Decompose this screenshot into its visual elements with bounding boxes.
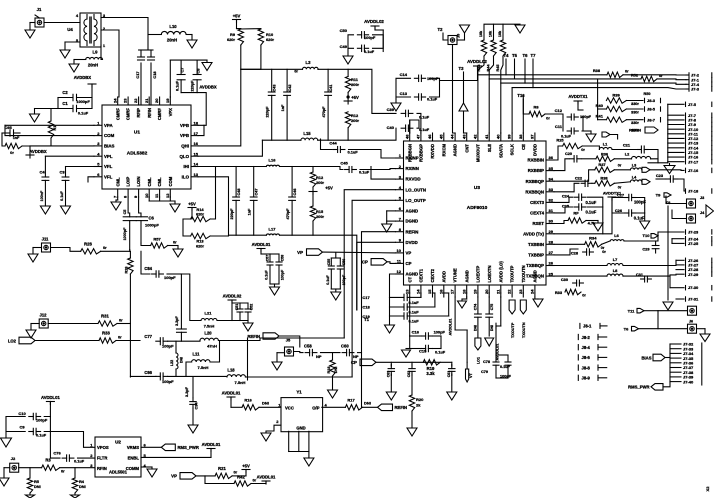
- wire pin39 up: [511, 88, 513, 133]
- resistor R5 vertical: [27, 478, 32, 493]
- wire J4 feed: [672, 210, 687, 219]
- value R6 0r: [546, 116, 550, 121]
- svg-text:32: 32: [549, 198, 554, 203]
- value C42 1nF: [281, 104, 285, 111]
- value 0r mid: [602, 250, 606, 254]
- capacitor C15: [422, 345, 441, 351]
- resistor R38 inline: [607, 72, 623, 77]
- svg-text:DNI: DNI: [34, 484, 41, 489]
- label C17b: [362, 295, 370, 300]
- wire C9 C10 right: [44, 417, 50, 432]
- svg-text:AVDDL01: AVDDL01: [202, 442, 221, 447]
- power AVDDL01 u3: [252, 242, 271, 247]
- wire VP to R21: [196, 475, 215, 477]
- svg-text:13: 13: [194, 172, 199, 177]
- wire R52 to J7-1: [657, 78, 686, 81]
- label L8: [613, 268, 618, 273]
- capacitor C58: [305, 349, 317, 355]
- svg-text:C12: C12: [555, 108, 563, 113]
- label J5: [286, 338, 291, 343]
- wire VTUNE down: [455, 297, 467, 330]
- U3 right pin labels: [523, 155, 554, 279]
- svg-text:18: 18: [461, 289, 466, 294]
- value C18b: [409, 310, 420, 315]
- value C1 0.1uF: [78, 111, 89, 116]
- svg-text:J7-31: J7-31: [688, 296, 699, 301]
- value C34 3.3pF: [185, 386, 189, 397]
- svg-text:CEXT4: CEXT4: [530, 211, 544, 216]
- label C10: [18, 411, 26, 416]
- label R20: [416, 397, 424, 402]
- svg-text:C56: C56: [342, 259, 346, 266]
- label J2: [11, 456, 16, 461]
- resistor R31: [98, 321, 117, 326]
- svg-text:3: 3: [399, 174, 402, 179]
- U3 left pin labels: [397, 153, 426, 276]
- wire C44 feed: [321, 139, 333, 150]
- svg-text:3.3pF: 3.3pF: [175, 315, 179, 325]
- svg-text:AGND: AGND: [406, 272, 419, 277]
- connector J3: [687, 196, 705, 208]
- resistor R9 620r: [238, 29, 243, 45]
- svg-text:VP: VP: [297, 250, 303, 255]
- capacitor C28: [583, 249, 594, 255]
- capacitor C77: [156, 338, 168, 345]
- svg-text:RXVDD: RXVDD: [430, 144, 435, 159]
- oscillator Y1 body: [281, 398, 323, 432]
- svg-text:RMS_PWR: RMS_PWR: [178, 445, 199, 450]
- svg-text:C58: C58: [281, 255, 285, 262]
- U1 pin stubs: [94, 97, 198, 197]
- svg-text:DNI: DNI: [490, 325, 494, 331]
- wire R9 R10 tops: [237, 28, 261, 30]
- capacitor C20 row2: [570, 156, 581, 162]
- resistor R39: [606, 98, 626, 103]
- svg-text:+5V: +5V: [233, 14, 241, 19]
- svg-text:CMRF: CMRF: [115, 108, 120, 121]
- svg-text:DVDD: DVDD: [406, 240, 418, 245]
- label R15: [316, 209, 324, 214]
- value C24: [586, 200, 597, 205]
- svg-text:17: 17: [194, 131, 199, 136]
- svg-text:FLTR: FLTR: [97, 456, 107, 461]
- svg-text:AVDDL01: AVDDL01: [252, 242, 271, 247]
- value R5 DNI: [34, 484, 41, 489]
- U4 pin numbers: [76, 13, 106, 48]
- label R6: [533, 105, 539, 110]
- svg-text:L3: L3: [306, 60, 312, 65]
- label C52: [250, 304, 254, 311]
- value R33 0r: [582, 294, 586, 298]
- power +5V r21: [242, 464, 250, 469]
- svg-text:3: 3: [97, 141, 100, 146]
- svg-text:5: 5: [97, 162, 100, 167]
- capacitor C30: [573, 280, 584, 286]
- svg-text:0.1uF: 0.1uF: [176, 80, 180, 91]
- capacitor C39: [401, 110, 413, 116]
- value R4 DNI: [79, 484, 86, 489]
- wire top line to L3: [241, 68, 303, 70]
- wire AVDD(Tx) pin29: [554, 200, 612, 234]
- ground AGND18: [458, 297, 467, 308]
- svg-text:VRMS: VRMS: [127, 445, 139, 450]
- capacitor C43: [268, 69, 275, 140]
- value C47 1nF: [248, 208, 252, 215]
- svg-text:C58: C58: [304, 344, 312, 349]
- resistor R36: [99, 338, 116, 343]
- ground below R18: [328, 376, 338, 398]
- IC U2 ADL5501 body: [95, 437, 141, 477]
- svg-text:TXBBIP: TXBBIP: [528, 253, 544, 258]
- wire VFL6 left: [88, 177, 94, 182]
- svg-text:6: 6: [399, 206, 402, 211]
- svg-text:DNI: DNI: [262, 401, 269, 406]
- flag TXOUTN down: [520, 300, 526, 338]
- T6b flag: [632, 326, 688, 331]
- label U4: [67, 27, 73, 32]
- value C49 0.1uF: [364, 49, 375, 54]
- svg-text:T9: T9: [656, 193, 661, 198]
- wire R15 bottom: [312, 221, 314, 235]
- inductor L17: [266, 234, 279, 235]
- svg-text:C18: C18: [152, 71, 157, 79]
- capacitor C53 3.3pF: [177, 274, 187, 341]
- wire R14 right: [210, 167, 215, 220]
- wire vertical feed 330r rows: [597, 79, 599, 120]
- label C31: [636, 272, 644, 277]
- label R1: [52, 125, 57, 131]
- svg-text:R6: R6: [533, 105, 539, 110]
- ground below C55 C56: [331, 289, 341, 300]
- svg-text:24: 24: [112, 98, 117, 103]
- wire C44 to RXINP: [349, 150, 396, 159]
- wire pin35 to row2: [554, 159, 570, 171]
- label R50: [644, 92, 651, 96]
- svg-text:J8-7: J8-7: [647, 117, 656, 122]
- wire R6 right: [545, 114, 563, 117]
- power bar AVDDBX bias: [26, 146, 34, 158]
- label C60: [341, 344, 349, 349]
- svg-text:T2: T2: [438, 27, 444, 32]
- svg-text:R17: R17: [347, 398, 355, 403]
- power bar AVDDL02 top: [371, 26, 383, 52]
- svg-text:VP: VP: [171, 474, 177, 479]
- value C15 0.1uF: [435, 350, 446, 355]
- value row4 330r: [631, 129, 639, 133]
- value L9 20nH: [88, 63, 98, 68]
- capacitor C50: [357, 32, 368, 38]
- label C14: [400, 72, 408, 77]
- stub J7-25: [672, 241, 699, 246]
- label R19: [427, 366, 435, 371]
- svg-text:DNI: DNI: [473, 325, 477, 331]
- label R38 row4: [600, 176, 608, 181]
- capacitor C26: [625, 210, 636, 216]
- svg-text:L22: L22: [170, 360, 174, 366]
- svg-text:7.5nH: 7.5nH: [204, 324, 215, 329]
- svg-text:15: 15: [427, 289, 432, 294]
- svg-text:L1: L1: [603, 142, 608, 147]
- label R26v: [125, 267, 129, 274]
- value C74 DNI: [473, 325, 477, 331]
- svg-text:C75: C75: [490, 304, 494, 311]
- label C30: [561, 277, 568, 282]
- svg-text:0.1uF: 0.1uF: [435, 350, 446, 355]
- svg-text:X2: X2: [705, 486, 710, 492]
- value C11 0.1uF: [561, 135, 572, 139]
- testpoint T3: [459, 66, 465, 71]
- ground right of R57: [168, 246, 183, 258]
- testpoint T6: [523, 53, 529, 58]
- svg-text:29: 29: [549, 229, 554, 234]
- svg-text:J7-23: J7-23: [688, 230, 699, 235]
- svg-text:T6: T6: [523, 53, 529, 58]
- stub J7-18: [686, 189, 700, 194]
- wire TXBBIN to J7-23: [624, 232, 684, 241]
- svg-text:0.1uF: 0.1uF: [348, 150, 359, 155]
- wire bus J7-4: [501, 83, 686, 84]
- label L21: [205, 311, 213, 316]
- svg-text:16: 16: [438, 289, 443, 294]
- wire VPA long left: [5, 124, 94, 126]
- svg-text:22: 22: [507, 289, 512, 294]
- svg-text:200r: 200r: [316, 214, 324, 219]
- svg-text:28: 28: [549, 240, 554, 245]
- svg-text:200r: 200r: [351, 82, 359, 87]
- label C58: [304, 344, 312, 349]
- svg-text:J8-2: J8-2: [582, 335, 591, 340]
- wire L20 right: [219, 340, 248, 342]
- flag T9: [664, 193, 671, 197]
- svg-text:39: 39: [507, 134, 512, 139]
- corner X2: [705, 486, 710, 492]
- label R36: [601, 153, 608, 157]
- wire pin33 to row4: [554, 183, 579, 192]
- resistor R38 row4: [595, 181, 615, 186]
- value C56 100pF: [342, 274, 346, 285]
- svg-text:J7-25: J7-25: [688, 241, 699, 246]
- value C57 0.1uF: [265, 270, 269, 280]
- tri down right of bank: [515, 25, 525, 33]
- label C78: [483, 360, 490, 364]
- svg-text:R16: R16: [244, 398, 252, 403]
- svg-text:100pF: 100pF: [164, 275, 176, 280]
- power +5V r9r10: [233, 14, 241, 19]
- resistor R10 620r: [258, 29, 263, 45]
- svg-text:C11: C11: [555, 124, 563, 129]
- svg-text:330r: 330r: [631, 111, 639, 115]
- flag VT up: [466, 369, 474, 382]
- wire L3 right run: [318, 69, 396, 113]
- svg-text:J7-29: J7-29: [688, 272, 699, 277]
- svg-text:C26: C26: [615, 208, 623, 213]
- label C58a: [281, 255, 285, 262]
- svg-text:35: 35: [549, 166, 554, 171]
- label C4: [39, 170, 45, 175]
- svg-text:LO1: LO1: [477, 357, 481, 364]
- capacitor C21: [637, 146, 648, 153]
- svg-text:LO_OUTP: LO_OUTP: [406, 198, 426, 203]
- wire J3 feed: [666, 196, 687, 204]
- svg-text:43: 43: [461, 134, 466, 139]
- wire J2 to R3: [19, 467, 42, 469]
- svg-text:L18: L18: [227, 368, 235, 373]
- value R17 DNI: [364, 401, 371, 406]
- wire T16b right: [610, 135, 618, 140]
- wire C66 left: [130, 375, 156, 377]
- value R9 620r: [227, 37, 235, 42]
- flag RMS_PWR u2: [161, 444, 199, 451]
- label R57: [153, 237, 161, 242]
- ground below C57 C58: [270, 284, 280, 295]
- wire R42 branch: [205, 476, 234, 484]
- svg-text:J8-8: J8-8: [582, 365, 591, 370]
- svg-text:CEXT1: CEXT1: [419, 268, 424, 282]
- resistor R15 200r: [310, 206, 315, 221]
- connector J10 low: [658, 306, 697, 315]
- svg-text:J8-1: J8-1: [583, 324, 592, 329]
- svg-text:REFIN: REFIN: [247, 334, 260, 339]
- svg-text:C22: C22: [575, 176, 583, 181]
- wire mid vertical junction: [247, 338, 249, 380]
- label C45: [340, 161, 348, 166]
- connector J1: [35, 15, 44, 27]
- ground Y1 bottom: [304, 458, 314, 466]
- svg-text:LO_OUTN: LO_OUTN: [406, 187, 427, 192]
- label R43: [477, 65, 481, 72]
- resistor R36 row2: [596, 156, 614, 161]
- wire C7 C8 top rail: [170, 59, 207, 61]
- wire VPOS feed: [50, 432, 60, 459]
- power bar AVDDL01 y1: [227, 397, 242, 407]
- power AVDDTX1: [568, 94, 588, 99]
- value C84 100pF: [164, 275, 176, 280]
- label L15: [303, 131, 311, 136]
- svg-text:J8-4: J8-4: [582, 345, 591, 350]
- wire VPOS feed2: [50, 432, 95, 448]
- connector J6 low: [688, 320, 711, 342]
- label C95: [4, 125, 12, 130]
- wire R28 to junction: [101, 250, 131, 252]
- svg-text:REFIN: REFIN: [629, 128, 641, 133]
- wire rowA to C45: [280, 167, 343, 170]
- label C56: [342, 259, 346, 266]
- svg-text:C40: C40: [387, 125, 395, 130]
- svg-text:R41: R41: [596, 114, 604, 119]
- resistor R18 vertical: [330, 360, 335, 376]
- connector J8-2..J8-9 stubs: [578, 334, 606, 380]
- wire C25 right: [588, 206, 603, 208]
- svg-text:C25: C25: [562, 204, 570, 209]
- value RF 4.7k: [588, 221, 597, 226]
- wire C7 C8 bottom rail to VPB: [181, 93, 206, 126]
- connector J11: [42, 243, 51, 252]
- value R31 0r: [119, 318, 123, 323]
- label C41: [329, 85, 333, 92]
- resistor R43: [481, 40, 486, 56]
- svg-text:J12: J12: [40, 313, 48, 318]
- capacitor C51: [237, 303, 243, 321]
- svg-text:1: 1: [399, 153, 402, 158]
- wire C11 C12 right: [582, 117, 583, 131]
- value R42 0r: [253, 478, 257, 483]
- svg-text:100pF: 100pF: [36, 418, 48, 423]
- value C66 100pF: [162, 379, 174, 384]
- wire rowB right: [280, 235, 357, 310]
- ground right low: [663, 302, 673, 310]
- svg-text:C50: C50: [340, 28, 348, 33]
- resistor R45: [500, 40, 505, 56]
- wire R13 right: [210, 235, 228, 237]
- value R21 0r: [234, 469, 238, 474]
- capacitor C79: [505, 355, 511, 378]
- label L17: [269, 227, 277, 232]
- svg-text:DNI: DNI: [334, 367, 338, 374]
- label R36: [102, 331, 110, 336]
- label L6: [614, 233, 619, 238]
- ground Y1 pin2: [261, 433, 271, 441]
- ground below C4: [40, 206, 50, 214]
- inductor L8: [607, 274, 623, 276]
- wire COM long left: [5, 125, 94, 135]
- ground below C26: [640, 213, 650, 229]
- wire CT pin13 down: [409, 297, 411, 336]
- wire RSET: [554, 221, 568, 224]
- wire LOIN down jog: [139, 197, 141, 217]
- wire R12b top: [312, 167, 314, 173]
- label R9: [230, 32, 236, 37]
- connector stub J7-3: [686, 87, 700, 92]
- wire C16 C15 right: [440, 336, 442, 349]
- svg-text:0.1uF: 0.1uF: [364, 49, 375, 54]
- value C50 100pF: [364, 35, 376, 40]
- label L22: [170, 360, 174, 366]
- power bar +5V r13r14: [188, 208, 196, 220]
- capacitor C5: [123, 217, 136, 250]
- svg-text:CEXT2: CEXT2: [430, 268, 435, 282]
- ground below C1: [30, 109, 59, 123]
- Y1 gnd stubs: [289, 431, 309, 458]
- capacitor C84: [152, 271, 164, 277]
- power bar +5V r9r10: [233, 20, 241, 29]
- U3 top pin labels: [404, 134, 537, 162]
- wire C66 to L18: [168, 375, 228, 378]
- wire J7 bracket vertical: [667, 104, 669, 163]
- wire TXBBIP row: [554, 249, 578, 255]
- power bar AVDDTX2: [608, 197, 616, 200]
- svg-text:J8-3: J8-3: [647, 98, 656, 103]
- resistor R14 620r: [191, 216, 211, 221]
- value C44: [348, 150, 359, 155]
- capacitor C1: [58, 105, 92, 111]
- value R12b 200r: [316, 180, 324, 185]
- svg-text:4: 4: [97, 151, 100, 156]
- wire C50 C49 left: [348, 35, 354, 49]
- capacitor C76: [62, 455, 74, 461]
- inductor L3 row3: [630, 168, 641, 170]
- value R52 0r: [659, 73, 663, 78]
- svg-text:30: 30: [549, 219, 554, 224]
- testpoint T16: [517, 93, 525, 98]
- svg-text:R33: R33: [102, 331, 110, 336]
- svg-text:J7-18: J7-18: [688, 189, 699, 194]
- wire C84 feed: [141, 251, 150, 274]
- svg-text:10k: 10k: [489, 30, 493, 37]
- svg-text:47: 47: [416, 134, 421, 139]
- svg-text:470pF: 470pF: [322, 106, 326, 118]
- power bar AVDDL01 r42: [251, 481, 270, 484]
- wire pin38 up: [522, 96, 524, 133]
